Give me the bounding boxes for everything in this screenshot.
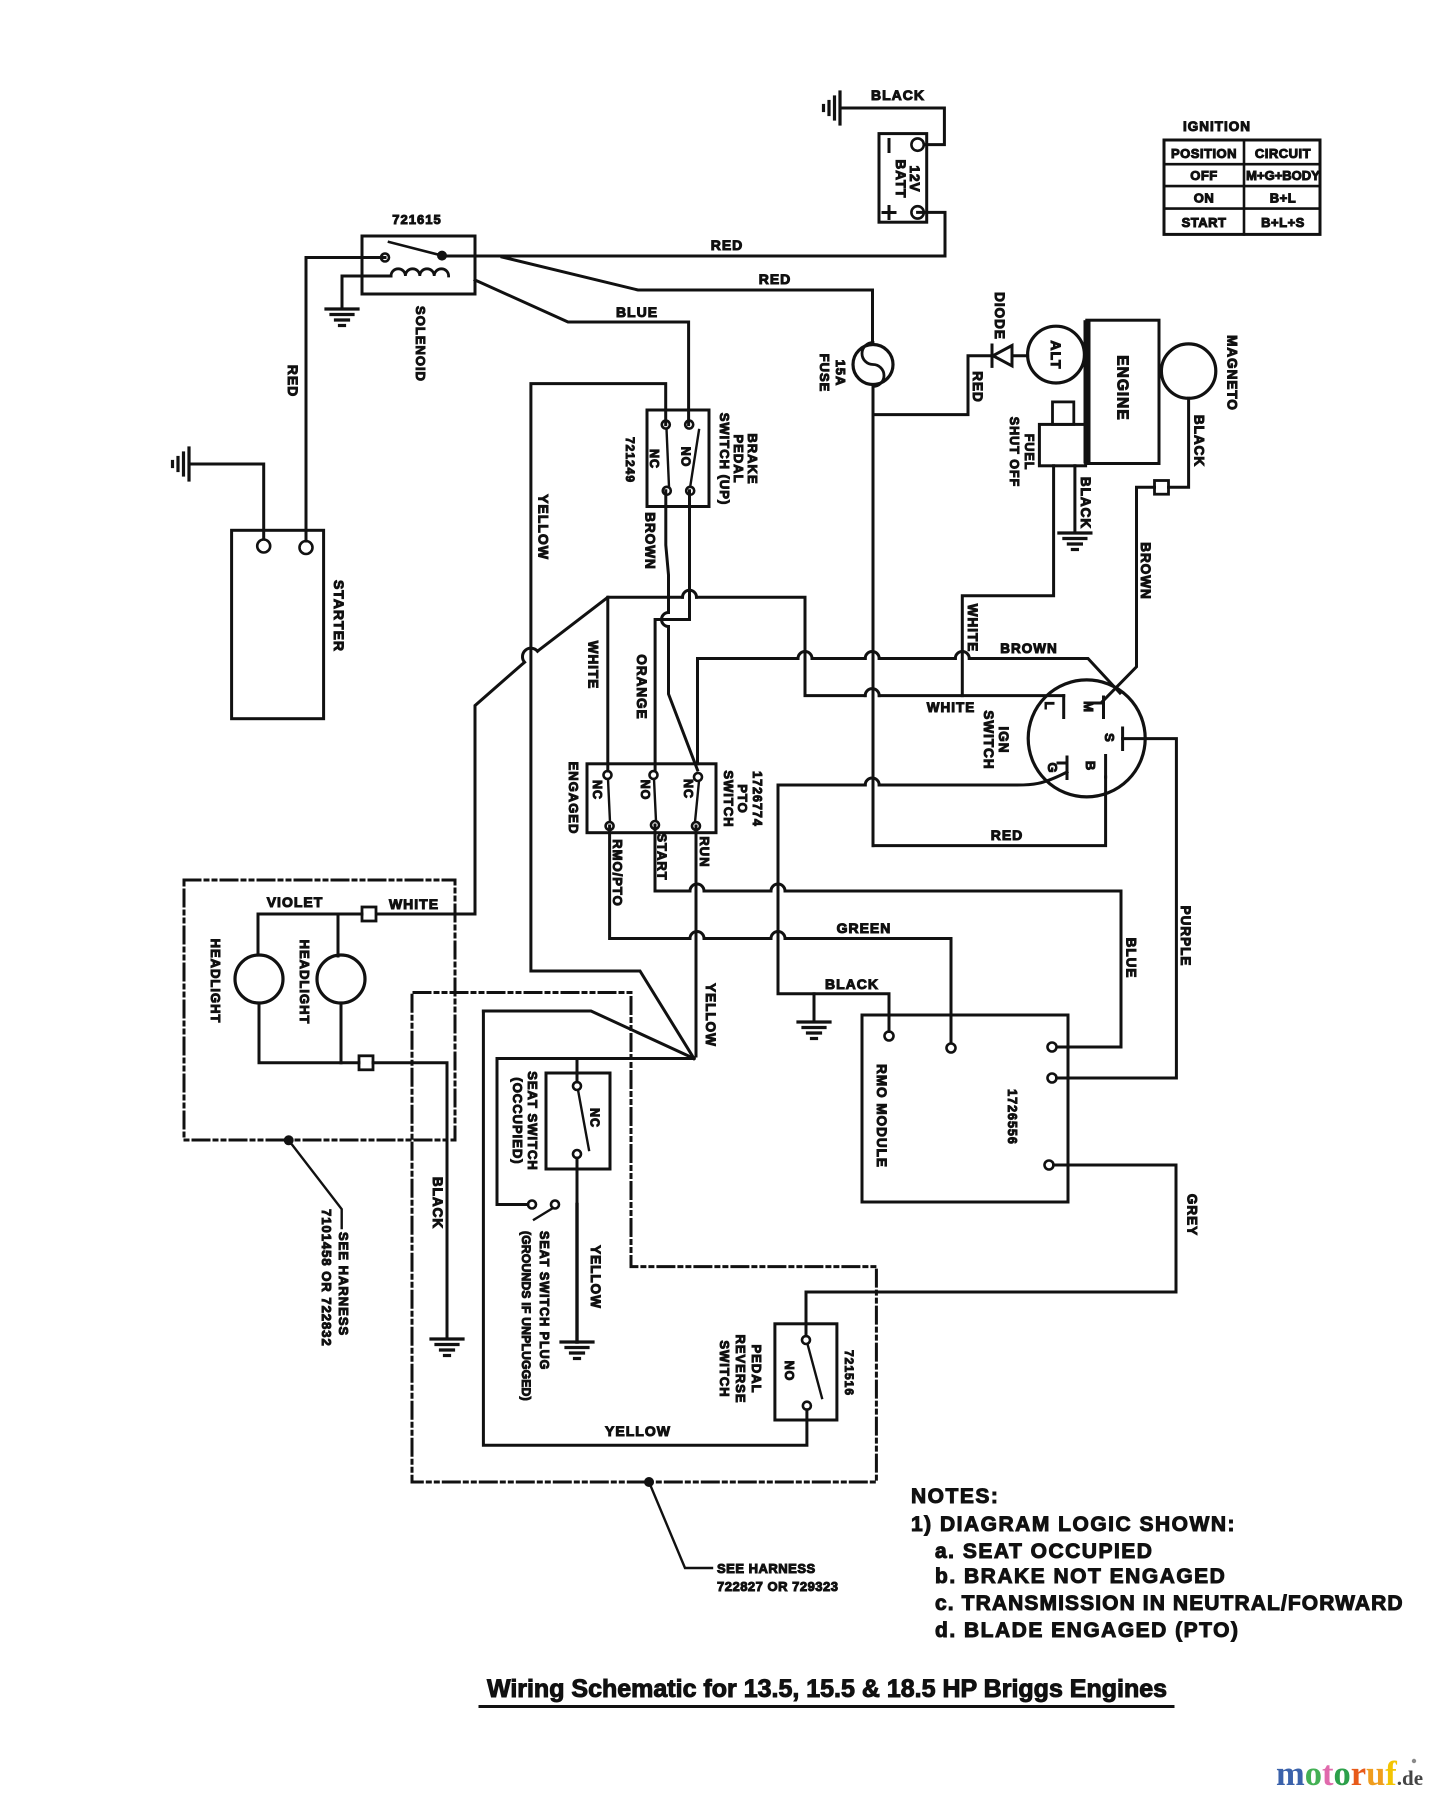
svg-text:ENGAGED: ENGAGED — [566, 762, 581, 835]
wire BROWN mid segment 2 — [879, 657, 955, 660]
lower dashed harness box — [412, 993, 876, 1483]
wire headlight bottoms — [259, 1003, 359, 1063]
hop BROWN over orange — [662, 613, 669, 627]
svg-text:721249: 721249 — [623, 437, 637, 483]
wire BLACK magneto down to connector — [1169, 398, 1189, 487]
wire seat switch bottom to plug — [576, 1158, 579, 1205]
brake switch NC top contact — [662, 421, 670, 429]
svg-text:NC: NC — [647, 449, 661, 469]
PTO NC1 blade — [608, 779, 610, 822]
svg-text:MAGNETO: MAGNETO — [1224, 335, 1239, 411]
svg-text:SEE HARNESS: SEE HARNESS — [336, 1232, 351, 1336]
wire GREEN mid — [704, 937, 771, 940]
svg-text:L: L — [1042, 702, 1057, 711]
wire WHITE fuel shutoff to white net — [962, 466, 1053, 696]
svg-text:RMO MODULE: RMO MODULE — [874, 1064, 889, 1168]
hop BROWN over white vertical — [955, 652, 969, 659]
ground below fuel shut off — [1059, 533, 1091, 550]
hop GREEN over yellow run wire — [690, 932, 704, 939]
wire PURPLE ign S to rmo — [1057, 739, 1177, 1078]
svg-text:BLACK: BLACK — [1192, 415, 1207, 467]
svg-text:BLUE: BLUE — [616, 304, 658, 320]
wire BLUE mid — [704, 890, 771, 893]
wire RED solenoid to starter — [306, 258, 385, 542]
svg-text:GREY: GREY — [1185, 1194, 1200, 1236]
hop WHITE diagonal over yellow — [522, 648, 537, 662]
svg-text:HEADLIGHT: HEADLIGHT — [297, 940, 312, 1025]
svg-text:BLACK: BLACK — [430, 1177, 445, 1229]
wire YELLOW run terminal down to fan — [695, 826, 698, 1056]
brake switch NO blade — [690, 430, 699, 487]
svg-text:YELLOW: YELLOW — [703, 983, 718, 1047]
svg-text:B+L+S: B+L+S — [1261, 215, 1305, 230]
svg-text:YELLOW: YELLOW — [588, 1245, 603, 1309]
svg-text:a. SEAT OCCUPIED: a. SEAT OCCUPIED — [935, 1540, 1153, 1563]
svg-text:FUSE: FUSE — [817, 354, 832, 393]
svg-text:SWITCH: SWITCH — [981, 710, 996, 769]
svg-text:NO: NO — [782, 1361, 796, 1382]
svg-text:PURPLE: PURPLE — [1178, 906, 1193, 967]
wire BROWN pto NC up and to ign M — [698, 659, 799, 764]
seat switch top contact — [573, 1082, 581, 1090]
hop GREEN over g-wire — [771, 932, 785, 939]
ign terminal G — [1058, 757, 1067, 779]
svg-text:START: START — [655, 833, 670, 880]
svg-text:IGNITION: IGNITION — [1183, 119, 1251, 134]
starter right terminal — [300, 541, 313, 554]
svg-text:FUEL: FUEL — [1022, 434, 1036, 471]
ignition table row line 1 — [1164, 163, 1320, 166]
svg-text:BLACK: BLACK — [871, 87, 925, 103]
svg-text:WHITE: WHITE — [927, 700, 976, 715]
headlight top square connector — [362, 907, 376, 921]
wire WHITE to L terminal — [697, 597, 866, 695]
ground left of starter — [173, 448, 190, 480]
hop BLUE over yellow run wire — [690, 884, 704, 891]
svg-text:1726774: 1726774 — [750, 771, 764, 827]
ground at battery — [824, 92, 841, 124]
seat switch blade — [578, 1090, 589, 1150]
wire BROWN brake NC bottom down — [666, 491, 669, 613]
wire seat switch top run — [497, 1059, 694, 1205]
svg-text:1726556: 1726556 — [1005, 1089, 1019, 1145]
svg-text:M: M — [1081, 701, 1096, 713]
svg-text:NOTES:: NOTES: — [911, 1485, 999, 1508]
fuel shut off small box — [1053, 402, 1074, 425]
svg-text:POSITION: POSITION — [1171, 146, 1237, 161]
svg-text:c. TRANSMISSION IN NEUTRAL/FOR: c. TRANSMISSION IN NEUTRAL/FORWARD — [935, 1592, 1404, 1615]
svg-text:SEE HARNESS: SEE HARNESS — [717, 1561, 816, 1576]
svg-text:SHUT OFF: SHUT OFF — [1007, 417, 1021, 488]
battery plus terminal — [911, 206, 923, 218]
wire BLACK fuel shutoff to ground — [1073, 466, 1076, 533]
battery minus terminal — [911, 138, 923, 150]
seat switch bottom contact — [573, 1150, 581, 1158]
wire RED solenoid to fuse — [502, 257, 873, 343]
diode symbol — [992, 345, 1028, 366]
PTO NC2 top contact — [694, 773, 702, 781]
wire GREEN rmo/pto terminal down — [610, 826, 690, 939]
PTO NC2 bottom contact — [692, 822, 700, 830]
wire RED battery plus to solenoid — [442, 212, 945, 256]
PTO switch box — [587, 764, 716, 833]
wire BLACK ground to battery minus — [840, 108, 944, 145]
ign terminal B — [1104, 756, 1107, 778]
svg-text:RED: RED — [711, 237, 744, 253]
svg-text:S: S — [1102, 733, 1117, 743]
wire plug to yellow ground — [575, 1205, 578, 1343]
svg-text:BLACK: BLACK — [1078, 477, 1093, 529]
solenoid switch blade — [389, 242, 442, 256]
svg-text:NO: NO — [679, 447, 693, 468]
svg-text:SWITCH: SWITCH — [721, 770, 736, 827]
solenoid 721615 box — [362, 236, 475, 294]
svg-text:PTO: PTO — [735, 784, 750, 814]
svg-text:VIOLET: VIOLET — [267, 894, 324, 910]
seat switch box — [546, 1073, 610, 1169]
wire YELLOW fan diagonal from bottom loop — [483, 1011, 694, 1059]
ign terminal L — [1062, 696, 1065, 718]
svg-text:b. BRAKE NOT ENGAGED: b. BRAKE NOT ENGAGED — [935, 1565, 1226, 1588]
fuel shut off box — [1039, 424, 1085, 465]
junction dot on headlight box — [284, 1135, 294, 1145]
PTO NC2 blade — [695, 781, 699, 822]
ign terminal S — [1121, 728, 1124, 750]
engine thick left edge — [1084, 320, 1091, 463]
PTO NC1 bottom contact — [606, 822, 614, 830]
alternator ALT circle — [1028, 326, 1085, 383]
headlight right circle — [317, 955, 365, 1003]
seat switch plug blade — [534, 1208, 553, 1220]
RMO pin grey — [1045, 1161, 1054, 1170]
wire fuse bottom down to RED ign branch — [872, 387, 875, 846]
wire WHITE diagonal to corner — [538, 597, 683, 651]
svg-text:IGN: IGN — [996, 726, 1011, 753]
svg-text:BROWN: BROWN — [1138, 542, 1153, 600]
svg-text:RED: RED — [759, 271, 792, 287]
svg-text:DIODE: DIODE — [992, 292, 1007, 340]
svg-text:PEDAL: PEDAL — [749, 1344, 764, 1393]
svg-text:CIRCUIT: CIRCUIT — [1255, 146, 1311, 161]
hop WHITE over red vertical — [865, 689, 879, 696]
wire right headlight bottom — [340, 1003, 343, 1063]
hop WHITE over orange riser — [683, 590, 697, 597]
svg-text:PEDAL: PEDAL — [731, 434, 746, 483]
solenoid right contact — [438, 252, 446, 260]
pedal switch bottom contact — [803, 1402, 811, 1410]
callout line to harness note 2 — [649, 1482, 712, 1568]
headlight dashed harness box — [184, 880, 455, 1140]
svg-text:7101458 OR 722832: 7101458 OR 722832 — [319, 1209, 334, 1347]
hop BROWN over red vertical 2 — [865, 652, 879, 659]
svg-text:Wiring Schematic for 13.5, 15.: Wiring Schematic for 13.5, 15.5 & 18.5 H… — [487, 1675, 1167, 1703]
svg-text:RED: RED — [285, 365, 301, 398]
hop BROWN over white riser — [798, 652, 812, 659]
svg-text:BRAKE: BRAKE — [745, 433, 760, 484]
svg-text:M+G+BODY: M+G+BODY — [1246, 168, 1320, 183]
battery 12V box — [879, 134, 927, 223]
PTO NO blade — [654, 779, 656, 821]
ground on black wire — [798, 1022, 830, 1039]
svg-text:STARTER: STARTER — [331, 580, 347, 652]
svg-text:NO: NO — [638, 780, 652, 801]
svg-text:721516: 721516 — [842, 1350, 856, 1396]
solenoid left contact — [381, 254, 389, 262]
svg-text:ORANGE: ORANGE — [634, 654, 649, 719]
svg-text:15A: 15A — [833, 360, 848, 387]
svg-text:1) DIAGRAM LOGIC SHOWN:: 1) DIAGRAM LOGIC SHOWN: — [911, 1513, 1236, 1536]
wire YELLOW bottom loop — [483, 1011, 807, 1445]
svg-text:ENGINE: ENGINE — [1114, 355, 1131, 420]
solenoid coil — [391, 269, 449, 276]
wire GREY rmo to pedal switch — [806, 1165, 1176, 1336]
svg-text:BATT: BATT — [893, 160, 908, 199]
RMO pin purple — [1048, 1074, 1057, 1083]
svg-text:SOLENOID: SOLENOID — [413, 306, 428, 382]
svg-text:GREEN: GREEN — [837, 920, 892, 936]
wire BLUE start terminal down — [655, 825, 690, 891]
starter left terminal — [257, 540, 270, 553]
junction dot on lower dashed box — [644, 1477, 654, 1487]
svg-text:12V: 12V — [907, 165, 922, 192]
callout line to harness note — [289, 1140, 342, 1228]
ignition switch circle — [1028, 680, 1145, 797]
ign terminal M — [1095, 697, 1104, 718]
svg-text:G: G — [1045, 762, 1060, 773]
wire ground stem on black wire — [813, 994, 816, 1022]
engine box — [1087, 320, 1159, 463]
svg-text:BROWN: BROWN — [643, 512, 658, 570]
svg-text:YELLOW: YELLOW — [536, 494, 552, 560]
svg-text:HEADLIGHT: HEADLIGHT — [208, 939, 223, 1024]
svg-text:BLUE: BLUE — [1124, 938, 1139, 979]
magneto square connector — [1155, 481, 1169, 495]
svg-text:WHITE: WHITE — [389, 896, 439, 912]
brake switch NO bottom contact — [686, 487, 694, 495]
svg-text:WHITE: WHITE — [586, 641, 601, 690]
RMO module box — [862, 1015, 1068, 1202]
svg-text:RUN: RUN — [697, 836, 712, 867]
svg-text:(OCCUPIED): (OCCUPIED) — [510, 1077, 525, 1164]
wire ORANGE brake NO bottom to PTO NO — [655, 491, 689, 771]
svg-text:SEAT SWITCH PLUG: SEAT SWITCH PLUG — [537, 1231, 551, 1370]
wire BLACK headlight to ground — [373, 1063, 447, 1339]
starter box — [232, 530, 324, 718]
svg-text:B: B — [1083, 761, 1098, 771]
fuse wave symbol — [862, 343, 884, 387]
svg-text:BLACK: BLACK — [825, 976, 879, 992]
svg-text:SWITCH (UP): SWITCH (UP) — [717, 413, 732, 506]
wire BROWN continue to PTO NC — [669, 627, 698, 771]
brake switch NO top contact — [685, 421, 693, 429]
brake switch NC bottom contact — [663, 487, 671, 495]
brake switch NC blade — [667, 429, 670, 487]
pedal switch top contact — [802, 1336, 810, 1344]
brake pedal switch box — [647, 410, 709, 507]
wire BROWN connector to ign switch area — [1102, 487, 1155, 702]
svg-text:RED: RED — [970, 371, 985, 403]
svg-text:RMO/PTO: RMO/PTO — [610, 839, 625, 906]
svg-text:ON: ON — [1194, 191, 1215, 206]
ignition table column divider — [1243, 140, 1246, 234]
motoruf trademark dot — [1412, 1759, 1416, 1763]
wire BROWN diagonal to M terminal — [969, 659, 1120, 694]
headlight left circle — [235, 955, 283, 1003]
battery minus sign — [888, 140, 891, 152]
svg-text:NC: NC — [590, 780, 604, 800]
ignition table row line 2 — [1164, 185, 1320, 188]
wire WHITE continue to ign L — [879, 694, 1063, 697]
fuse 15A circle — [853, 345, 893, 385]
svg-text:SEAT SWITCH: SEAT SWITCH — [525, 1071, 540, 1171]
wire WHITE junction down to PTO ENGAGED NC — [606, 597, 609, 771]
svg-text:ALT: ALT — [1048, 340, 1064, 369]
hop G-wire over red vertical — [865, 778, 879, 785]
ignition table row line 3 — [1164, 207, 1320, 210]
wire GREEN to rmo module pin — [785, 939, 951, 1044]
svg-text:YELLOW: YELLOW — [605, 1423, 671, 1439]
ground headlight black wire — [431, 1339, 463, 1356]
svg-text:START: START — [1182, 215, 1227, 230]
wire VIOLET headlight top — [258, 914, 362, 955]
wire G terminal to black net — [879, 772, 1067, 785]
battery plus sign — [883, 207, 895, 219]
RMO pin blue — [1048, 1043, 1057, 1052]
svg-text:B+L: B+L — [1270, 191, 1296, 206]
ground seat switch plug — [561, 1342, 593, 1359]
svg-text:OFF: OFF — [1190, 168, 1218, 183]
PTO NO top contact — [650, 771, 658, 779]
svg-text:SWITCH: SWITCH — [717, 1340, 732, 1397]
svg-text:722827 OR 729323: 722827 OR 729323 — [717, 1579, 838, 1594]
PTO NC1 top contact — [604, 771, 612, 779]
pedal switch blade — [808, 1344, 823, 1398]
PTO NO bottom contact — [651, 821, 659, 829]
pedal reverse switch box — [775, 1324, 837, 1420]
svg-text:(GROUNDS IF UNPLUGGED): (GROUNDS IF UNPLUGGED) — [519, 1231, 533, 1401]
seat switch plug left contact — [528, 1201, 536, 1209]
wire solenoid coil to ground — [342, 276, 391, 309]
wire BLUE to rmo module pin1 — [785, 891, 1121, 1047]
svg-text:WHITE: WHITE — [965, 604, 980, 653]
wire RED ign B to fuse line — [873, 777, 1106, 846]
svg-text:721615: 721615 — [392, 212, 441, 227]
seat switch plug right contact — [551, 1201, 559, 1209]
wire right headlight to top wire — [337, 914, 340, 956]
wire YELLOW brake NC top loop — [531, 384, 694, 1059]
hop BLUE over g-wire — [771, 884, 785, 891]
wire WHITE headlight to junction diagonal — [377, 662, 525, 914]
RMO pin black — [885, 1032, 894, 1041]
ignition table frame — [1164, 140, 1320, 234]
magneto circle — [1161, 344, 1215, 398]
svg-text:RED: RED — [991, 827, 1024, 843]
wire G-wire continue down — [778, 785, 889, 1032]
wire BLUE solenoid to brake switch NO — [475, 280, 689, 425]
ground below solenoid — [326, 309, 358, 326]
svg-text:d. BLADE ENGAGED (PTO): d. BLADE ENGAGED (PTO) — [935, 1619, 1239, 1642]
svg-text:NC: NC — [681, 779, 695, 799]
wire ground to starter left terminal — [189, 464, 264, 539]
title underline — [480, 1705, 1173, 1708]
wire seat switch top to junction — [576, 1059, 579, 1083]
svg-text:REVERSE: REVERSE — [733, 1334, 748, 1403]
RMO pin green — [947, 1044, 956, 1053]
headlight bottom square connector — [359, 1056, 373, 1070]
wire RED fuse to diode — [873, 356, 989, 415]
wire BROWN mid segment — [812, 657, 865, 660]
svg-text:NC: NC — [588, 1108, 602, 1128]
svg-text:BROWN: BROWN — [1000, 641, 1058, 656]
